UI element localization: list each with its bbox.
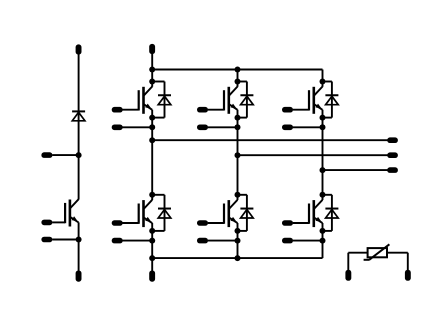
node Q2 emitter tap bbox=[235, 124, 241, 130]
node Q1 emitter tap bbox=[149, 124, 155, 130]
wire (Q5 gate lead) bbox=[208, 222, 224, 224]
resistor RV1 (varistor body) bbox=[368, 248, 387, 257]
wire (leg3 midpoint rail) bbox=[322, 110, 324, 200]
terminal N7 (chopper bottom pin) bbox=[76, 271, 82, 282]
terminal R1 (varistor left pin) bbox=[345, 270, 351, 281]
wire (varistor left lead) bbox=[347, 253, 349, 271]
node Q7 emitter tap bbox=[76, 237, 82, 243]
wire (Q4 emitter drop) bbox=[151, 223, 153, 258]
node leg1 upper diode bottom bbox=[149, 115, 155, 121]
node leg1 upper diode top bbox=[149, 79, 155, 85]
transistor Q6 (low-side IGBT) bbox=[314, 200, 322, 209]
wire (phase U line) bbox=[152, 139, 387, 141]
wire (Q5 emitter drop) bbox=[237, 223, 239, 258]
node leg2 lower diode bottom bbox=[235, 228, 241, 234]
transistor Q2 (high-side IGBT) bbox=[229, 87, 237, 96]
terminal Q5 gate pin bbox=[197, 220, 208, 226]
wire (phase V line) bbox=[238, 154, 388, 156]
wire (Q7 gate lead) bbox=[52, 221, 65, 223]
terminal R2 (varistor right pin) bbox=[405, 270, 411, 281]
wire (Q6 gate lead) bbox=[293, 222, 309, 224]
terminal pin 2 (Q7 gate) bbox=[41, 220, 52, 226]
node Q5 emitter tap bbox=[235, 238, 241, 244]
wire (leg1 midpoint rail) bbox=[151, 110, 153, 200]
diode D4 (freewheel, anti-parallel) bbox=[158, 208, 171, 210]
terminal Q4 gate pin bbox=[112, 220, 123, 226]
terminal Q3 emitter sense pin bbox=[282, 125, 293, 131]
diode D5 (freewheel, anti-parallel) bbox=[240, 208, 253, 210]
wire (Q3 emitter stub) bbox=[293, 126, 323, 128]
wire (D4 branch) bbox=[152, 194, 164, 196]
terminal Q2 emitter sense pin bbox=[197, 125, 208, 131]
terminal W (phase output) bbox=[387, 167, 398, 173]
wire (Q3 gate lead) bbox=[293, 109, 309, 111]
terminal Q1 gate pin bbox=[112, 107, 123, 113]
terminal DC+ (bridge top pin) bbox=[149, 44, 155, 54]
node DC+ bus / leg 1 bbox=[149, 67, 155, 73]
node leg3 lower diode bottom bbox=[320, 228, 326, 234]
node leg2 lower diode top bbox=[235, 192, 241, 198]
diode D2 (freewheel, anti-parallel) bbox=[240, 94, 253, 96]
wire (D3 branch) bbox=[323, 81, 332, 83]
terminal Q4 emitter sense pin bbox=[112, 238, 123, 244]
wire (Q5 emitter stub) bbox=[208, 240, 238, 242]
terminal pin 1 (chopper tap) bbox=[41, 152, 52, 158]
terminal Q2 gate pin bbox=[197, 107, 208, 113]
node leg1 lower diode top bbox=[149, 192, 155, 198]
wire (negative DC bus) bbox=[152, 257, 322, 259]
wire (chopper collector rail) bbox=[78, 54, 80, 200]
wire (Q4 emitter stub) bbox=[123, 240, 153, 242]
wire (DC- drop) bbox=[151, 258, 153, 271]
wire (DC+ drop) bbox=[151, 54, 153, 87]
node phase W output bbox=[320, 167, 326, 173]
diode D1 (freewheel, anti-parallel) bbox=[158, 94, 171, 96]
node Q6 emitter tap bbox=[320, 238, 326, 244]
node phase V output bbox=[235, 152, 241, 158]
node leg2 upper diode bottom bbox=[235, 115, 241, 121]
transistor Q7 (brake chopper IGBT) bbox=[70, 199, 78, 208]
transistor Q5 (low-side IGBT) bbox=[229, 200, 237, 209]
node leg1 lower diode bottom bbox=[149, 228, 155, 234]
wire (Q6 emitter stub) bbox=[293, 240, 323, 242]
wire (leg 2 top drop) bbox=[237, 70, 239, 87]
node Q3 emitter tap bbox=[320, 124, 326, 130]
wire (leg2 midpoint rail) bbox=[237, 110, 239, 200]
node leg3 upper diode bottom bbox=[320, 115, 326, 121]
wire (emitter stub) bbox=[52, 239, 78, 241]
wire (phase W line) bbox=[323, 169, 388, 171]
node phase U output bbox=[149, 137, 155, 143]
terminal P7 (chopper top pin) bbox=[76, 44, 82, 54]
transistor Q3 (high-side IGBT) bbox=[314, 87, 322, 96]
terminal V (phase output) bbox=[387, 152, 398, 158]
wire (Q2 gate lead) bbox=[208, 109, 224, 111]
wire (D6 branch) bbox=[323, 194, 332, 196]
wire (D5 branch) bbox=[238, 194, 247, 196]
node chopper-diode tap bbox=[76, 152, 82, 158]
varistor RV1 diagonal stroke bbox=[369, 244, 389, 259]
wire (D2 branch) bbox=[238, 81, 247, 83]
terminal DC- (bridge bottom pin) bbox=[149, 271, 155, 282]
terminal Q3 gate pin bbox=[282, 107, 293, 113]
wire (varistor right lead) bbox=[387, 252, 408, 254]
node leg2 upper diode top bbox=[235, 79, 241, 85]
terminal Q1 emitter sense pin bbox=[112, 125, 123, 131]
diode D6 (freewheel, anti-parallel) bbox=[325, 208, 338, 210]
terminal Q5 emitter sense pin bbox=[197, 238, 208, 244]
terminal Q6 gate pin bbox=[282, 220, 293, 226]
wire (Q1 gate lead) bbox=[123, 109, 139, 111]
node leg3 lower diode top bbox=[320, 192, 326, 198]
wire (positive DC bus) bbox=[152, 69, 322, 71]
wire (Q7 emitter) bbox=[78, 222, 80, 271]
node DC- bus / leg 1 bbox=[149, 255, 155, 261]
node Q4 emitter tap bbox=[149, 238, 155, 244]
wire (Q6 emitter drop) bbox=[322, 223, 324, 258]
diode D7 (chopper freewheel diode) bbox=[72, 110, 85, 112]
node DC+ bus / leg 2 bbox=[235, 67, 241, 73]
terminal U (phase output) bbox=[387, 137, 398, 143]
wire (tap stub) bbox=[52, 154, 78, 156]
wire (Q2 emitter stub) bbox=[208, 126, 238, 128]
transistor Q1 (high-side IGBT) bbox=[144, 87, 152, 96]
wire (Q1 emitter stub) bbox=[123, 126, 153, 128]
node leg3 upper diode top bbox=[320, 79, 326, 85]
terminal pin 3 (Q7 emitter sense) bbox=[41, 237, 52, 243]
node DC- bus / leg 2 bbox=[235, 255, 241, 261]
terminal Q6 emitter sense pin bbox=[282, 238, 293, 244]
wire (Q4 gate lead) bbox=[123, 222, 139, 224]
diode D3 (freewheel, anti-parallel) bbox=[325, 94, 338, 96]
wire (leg 3 top drop) bbox=[322, 70, 324, 87]
transistor Q4 (low-side IGBT) bbox=[144, 200, 152, 209]
wire (D1 branch) bbox=[152, 81, 164, 83]
